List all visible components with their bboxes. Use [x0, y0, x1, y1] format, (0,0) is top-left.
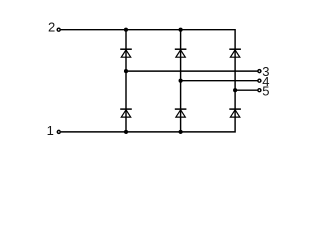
svg-text:1: 1: [47, 123, 54, 138]
svg-text:2: 2: [48, 19, 55, 34]
svg-text:5: 5: [262, 84, 269, 99]
